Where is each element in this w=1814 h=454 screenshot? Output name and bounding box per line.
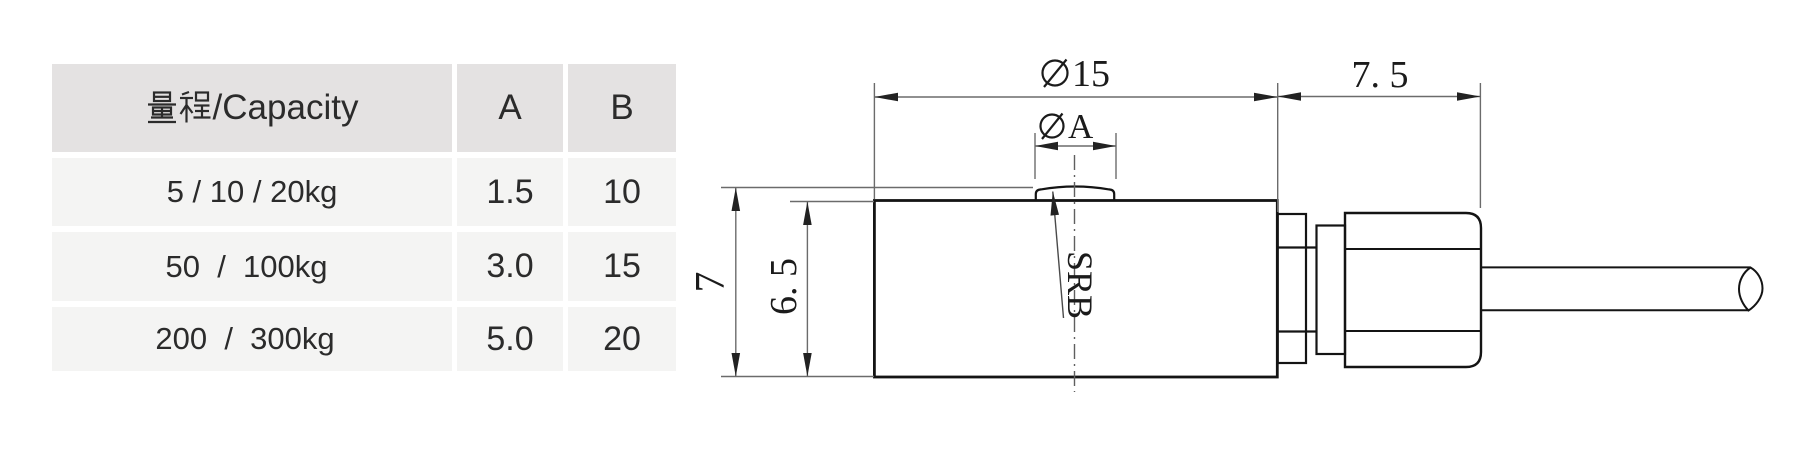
header cell A <box>457 64 563 152</box>
dimension 7.5: dimension line <box>1278 96 1481 98</box>
load cell body outline <box>874 201 1277 378</box>
SRB leader arrowhead <box>1051 192 1060 216</box>
neck top line <box>1278 246 1317 248</box>
boss (button) on top <box>1036 187 1114 201</box>
arrow bottom of 6.5 <box>803 353 812 377</box>
header cell B <box>568 64 676 152</box>
arrow left of ØA <box>1035 142 1058 151</box>
row 3 <box>52 307 452 371</box>
dimension 7: dimension line <box>735 188 737 377</box>
capacity table <box>52 64 676 371</box>
header cell 量程/Capacity <box>52 64 452 152</box>
svg-text:6. 5: 6. 5 <box>763 258 805 315</box>
nut lower flat line <box>1345 330 1481 332</box>
svg-text:SRB: SRB <box>1060 251 1100 319</box>
dimension ØA: extension line right <box>1115 133 1117 179</box>
cable top line <box>1481 266 1751 268</box>
glyph 量 <box>148 93 176 123</box>
SRB leader line <box>1053 192 1064 319</box>
dimension text Ø15 <box>1043 53 1111 95</box>
svg-text:15: 15 <box>1072 53 1110 95</box>
dimension Ø15: extension line right (shared with 7.5) <box>1277 83 1279 212</box>
arrow right of 7.5 <box>1457 92 1480 101</box>
extension line boss top level (for 7) <box>721 187 1033 189</box>
dimension Ø15: extension line left <box>873 83 875 199</box>
dimension 6.5: dimension line <box>806 202 808 377</box>
row 2 <box>52 232 452 301</box>
arrow top of 6.5 <box>803 202 812 226</box>
nut upper flat line <box>1345 248 1481 250</box>
svg-text:A: A <box>1068 107 1094 146</box>
cable bottom line <box>1481 309 1749 311</box>
dimension ØA: dimension line <box>1035 145 1116 147</box>
extension line body top level (for 6.5) <box>790 201 874 203</box>
extension line body bottom level <box>721 376 874 378</box>
connector flange step <box>1278 214 1306 363</box>
centerline (dash-dot) <box>1074 155 1076 392</box>
arrow right of ØA <box>1093 142 1116 151</box>
arrow top of 7 <box>732 188 741 212</box>
arrow bottom of 7 <box>732 353 741 377</box>
neck bottom line <box>1278 330 1317 332</box>
arrow left of 7.5 <box>1278 92 1301 101</box>
dimension 7.5: extension line right <box>1479 83 1481 208</box>
arrow left of Ø15 <box>874 93 898 102</box>
cable end cap <box>1739 268 1763 311</box>
gland nut <box>1345 213 1481 367</box>
arrow right of Ø15 <box>1254 93 1278 102</box>
row 1 <box>52 158 452 226</box>
dimension Ø15: dimension line <box>874 96 1277 98</box>
dimension ØA: extension line left <box>1034 133 1036 179</box>
svg-text:7. 5: 7. 5 <box>1352 54 1409 96</box>
svg-text:7: 7 <box>688 272 734 293</box>
dimension text ØA <box>1041 107 1095 146</box>
glyph 程 <box>180 92 211 123</box>
washer piece <box>1317 226 1346 355</box>
